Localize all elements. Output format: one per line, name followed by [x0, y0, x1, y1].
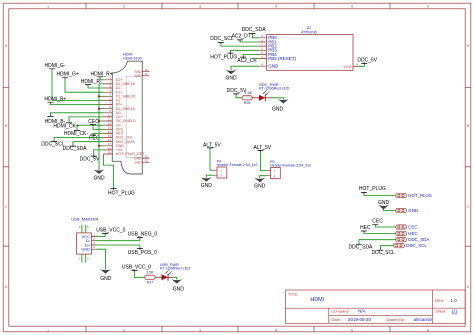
pad DDC_SCL [394, 244, 405, 248]
wire HEC to pin14 [93, 133, 104, 135]
svg-text:5: 5 [351, 4, 353, 8]
svg-text:3: 3 [199, 4, 201, 8]
svg-text:1: 1 [47, 328, 49, 332]
wire DDC_SDA to pin16 [73, 142, 104, 146]
svg-text:HEC: HEC [360, 225, 371, 231]
svg-text:HDMI-5190: HDMI-5190 [123, 57, 141, 61]
svg-text:DDC_SDA: DDC_SDA [63, 146, 88, 152]
svg-text:GND: GND [201, 183, 213, 189]
connector J1 top SHD pins [142, 72, 149, 76]
title block [286, 290, 466, 323]
net label HOT_PLUG (IC) [210, 50, 258, 60]
svg-text:DDC_SDA: DDC_SDA [242, 27, 267, 33]
net label DDC_SCL (left) [41, 138, 103, 148]
wire HOT_PLUG to pad [364, 193, 396, 195]
wire DDC_5V to R26 [236, 95, 242, 98]
wire HDMI_CK+ to pin10 [69, 117, 104, 123]
svg-text:DDC_SCL: DDC_SCL [210, 36, 234, 42]
net label AC2_DT [232, 34, 259, 43]
wire USB_VCC_0 to R27 [135, 271, 145, 277]
net label HDMI_B+ [44, 96, 103, 104]
connector J1 inner shield outline [126, 76, 142, 157]
svg-text:Header-Female-2.54_1x2: Header-Female-2.54_1x2 [217, 163, 258, 167]
svg-text:N/A: N/A [358, 309, 366, 314]
svg-text:GND: GND [100, 276, 112, 282]
svg-text:GND: GND [173, 286, 185, 292]
connector J1 HDMI-5190 [104, 53, 150, 174]
ground symbol IC [226, 70, 237, 74]
svg-text:2: 2 [123, 4, 125, 8]
svg-text:1: 1 [47, 4, 49, 8]
svg-text:1.5K: 1.5K [245, 91, 253, 95]
pad DDC_SDA [396, 238, 407, 242]
svg-text:HOT_PLUG: HOT_PLUG [210, 55, 237, 61]
header P4 [201, 142, 258, 188]
wire HDMI_CK- to pin12 [77, 125, 104, 130]
wire CEC to pin13 [93, 125, 104, 129]
svg-text:AC2_DT: AC2_DT [232, 34, 251, 40]
svg-text:6: 6 [427, 328, 429, 332]
net label HDMI_B- [45, 113, 104, 125]
svg-text:KT-1206Red LED: KT-1206Red LED [160, 265, 191, 270]
svg-text:DDC_SCL: DDC_SCL [372, 250, 396, 256]
svg-text:HDMI_CK+: HDMI_CK+ [53, 124, 79, 130]
pad HEC [396, 231, 407, 235]
svg-text:USB_MASTER: USB_MASTER [71, 217, 98, 222]
resistor R26 [242, 96, 252, 100]
wire P5 pin2 to GND [260, 176, 266, 179]
net label DDC_SDA (left) [63, 142, 104, 152]
USB power LED circuit [122, 262, 190, 293]
svg-text:DDC_SDA: DDC_SDA [408, 237, 429, 242]
ground symbol USB LED [172, 279, 183, 283]
svg-text:GND: GND [93, 176, 105, 182]
net label HDMI_CK+ [53, 117, 103, 130]
svg-text:Company:: Company: [331, 309, 349, 314]
svg-text:D: D [5, 285, 8, 289]
wire DDC_SCL to pin15 [54, 138, 103, 142]
net label DDC_SCL (IC) [210, 36, 258, 46]
net label AC2_CK [237, 54, 258, 64]
wire HDMI_B- to pin9 [51, 113, 104, 117]
wire DDC_SCL to pad [380, 246, 394, 251]
net label CEC [88, 119, 103, 130]
svg-text:USB_VCC_0: USB_VCC_0 [122, 264, 151, 270]
wire DDC_SCL to PB2 [221, 43, 259, 46]
net label HDMI_R+ [91, 71, 113, 80]
LED USB_PWR [162, 274, 169, 280]
net label DDC_5V (left) [80, 150, 104, 163]
svg-text:HOT_PLUG: HOT_PLUG [108, 191, 135, 197]
wire LED to GND [168, 276, 173, 278]
wire DDC_5V to pin18 [94, 150, 104, 156]
wire USB D- [97, 238, 140, 241]
svg-text:GND: GND [268, 64, 279, 69]
wire ALT_5V to P4 pin1 [210, 149, 212, 171]
connector J1 pin numbers [108, 76, 111, 154]
svg-text:R26: R26 [244, 101, 251, 105]
wire PB5 stub [252, 58, 259, 60]
svg-text:HEC: HEC [89, 135, 100, 141]
net label HDMI_G+ [57, 71, 104, 92]
wire HEC to pad [364, 232, 396, 234]
svg-text:DDC_5V: DDC_5V [80, 156, 100, 162]
pad GND [396, 209, 407, 213]
header P5 [254, 145, 312, 189]
svg-text:Header-Female-2.54_1x2: Header-Female-2.54_1x2 [270, 163, 311, 167]
svg-text:USB_NEG_0: USB_NEG_0 [128, 232, 158, 238]
USB_MASTER shield stubs bottom [82, 254, 86, 263]
svg-text:HOT_PLUG: HOT_PLUG [359, 186, 386, 192]
svg-text:REV:: REV: [435, 298, 444, 303]
svg-text:4: 4 [275, 328, 277, 332]
wire GND to pad [384, 209, 397, 211]
svg-text:SHD: SHD [134, 160, 142, 164]
wire HOT_PLUG from pin19 [104, 154, 136, 197]
svg-text:VCC: VCC [343, 64, 352, 69]
ground symbol below connector [94, 170, 105, 174]
svg-text:2019-05-20: 2019-05-20 [348, 317, 372, 322]
wire HDMI_G- to pin6 [52, 69, 104, 100]
svg-text:HOT_PLUG: HOT_PLUG [408, 193, 432, 198]
wire CEC to pad [375, 225, 396, 227]
wire DDC_SDA to PB0 [252, 34, 258, 38]
resistor R27 [145, 275, 155, 279]
IC U2 left pins [259, 38, 267, 66]
LED DDC_PWR [259, 95, 266, 101]
svg-text:GND: GND [408, 208, 418, 213]
ground symbol DDC LED [278, 99, 289, 103]
svg-text:3: 3 [199, 328, 201, 332]
USB_MASTER shield stubs top [82, 225, 86, 233]
svg-text:CEC: CEC [372, 219, 383, 225]
header P4 body [212, 170, 217, 175]
ground symbol P5 [255, 178, 266, 182]
header P5 body [266, 171, 271, 176]
svg-text:B: B [5, 124, 8, 128]
svg-text:USB_VCC_0: USB_VCC_0 [96, 228, 125, 234]
junction dots on shield trunk [98, 95, 100, 97]
wire AC2_DT to PB1 [240, 41, 259, 43]
svg-text:HEC: HEC [408, 231, 417, 236]
wire HDMI_G+ to pin4 [65, 78, 104, 92]
op IC U2 ATTINY45 [259, 26, 359, 70]
svg-text:GND: GND [225, 76, 237, 82]
wire shield trunk [93, 84, 105, 182]
test pads right column [359, 186, 433, 198]
wire USB VCC [97, 234, 106, 237]
svg-text:2: 2 [123, 328, 125, 332]
net label USB_POS_0 [97, 245, 158, 256]
svg-text:C: C [5, 205, 8, 209]
svg-text:1.0: 1.0 [451, 298, 458, 303]
svg-text:HDMI_G-: HDMI_G- [45, 63, 66, 69]
net label HDMI_CK- [64, 125, 104, 137]
svg-text:GND: GND [272, 106, 284, 112]
svg-text:ALT_5V: ALT_5V [203, 142, 221, 148]
svg-text:DDC_SCL: DDC_SCL [41, 141, 65, 147]
svg-text:TITLE:: TITLE: [288, 292, 298, 296]
net label HDMI_R- [81, 79, 104, 88]
ground symbol USB [100, 269, 111, 273]
wire LED to GND [265, 97, 271, 99]
connector J1 left pins 1-19 [104, 80, 113, 154]
svg-text:GND: GND [378, 200, 390, 206]
svg-text:GND: GND [81, 247, 90, 252]
svg-text:5: 5 [351, 328, 353, 332]
wire R26 to LED [252, 97, 258, 99]
svg-text:USB_POS_0: USB_POS_0 [128, 250, 157, 256]
net label USB_NEG_0 [97, 232, 158, 241]
pad CEC [396, 225, 407, 229]
IC U2 VCC pin 8 [353, 65, 359, 67]
connector J1 bottom GND/SHD pins [142, 158, 149, 162]
USB_MASTER right pin stubs [91, 237, 96, 250]
wire HDMI_B+ to pin7 [51, 103, 104, 105]
svg-text:Sheet:: Sheet: [435, 309, 447, 314]
svg-text:D: D [467, 285, 470, 289]
net label DDC_5V (IC VCC) [357, 57, 377, 66]
svg-text:PB5 (RESET): PB5 (RESET) [268, 56, 296, 61]
net label DDC_SDA (IC) [242, 27, 267, 38]
wire IC GND [225, 66, 258, 81]
connector J1 shell outline [112, 61, 142, 174]
wire P4 pin2 to GND [206, 175, 212, 178]
svg-text:1/1: 1/1 [451, 309, 458, 314]
svg-text:6: 6 [427, 4, 429, 8]
svg-text:HDMI_B+: HDMI_B+ [44, 96, 66, 102]
wire HDMI_R- to pin3 [88, 85, 104, 88]
net label HDMI_G- [45, 63, 104, 100]
wire R27 to LED [155, 276, 161, 278]
svg-text:A: A [5, 44, 8, 48]
svg-text:GND: GND [254, 183, 266, 189]
svg-text:ALT_5V: ALT_5V [254, 145, 272, 151]
pad HOT_PLUG [396, 193, 407, 197]
wire USB GND [97, 249, 112, 282]
net label HEC [89, 133, 104, 141]
svg-text:DDC_SCL: DDC_SCL [406, 243, 427, 248]
net label USB_VCC_0 [96, 228, 125, 237]
svg-text:B: B [467, 124, 470, 128]
svg-text:R27: R27 [147, 280, 154, 284]
connector J1 pin names [116, 78, 145, 156]
svg-text:4: 4 [275, 4, 277, 8]
svg-text:KT-1206Red LED: KT-1206Red LED [259, 85, 290, 90]
wire HDMI_R+ to pin1 [100, 77, 104, 79]
svg-text:ATTINY45: ATTINY45 [301, 30, 317, 34]
ground symbol P4 [201, 177, 212, 181]
svg-text:Drawn By:: Drawn By: [387, 317, 405, 322]
svg-text:alecamar: alecamar [414, 317, 433, 322]
wire ALT_5V to P5 pin1 [261, 151, 266, 171]
svg-text:HDMI_R+: HDMI_R+ [91, 71, 113, 77]
svg-text:1.5K: 1.5K [146, 271, 154, 275]
svg-text:CEC: CEC [408, 225, 417, 230]
svg-text:DDC_SDA: DDC_SDA [349, 245, 374, 251]
svg-text:SHD: SHD [134, 74, 142, 78]
svg-text:HDMI_G+: HDMI_G+ [57, 71, 79, 77]
DDC power LED circuit [227, 82, 290, 113]
svg-text:HDMI: HDMI [310, 297, 324, 303]
wire DDC_SDA to pad [359, 240, 396, 245]
svg-text:CEC: CEC [88, 119, 99, 125]
svg-text:DDC_5V: DDC_5V [357, 57, 377, 63]
svg-text:C: C [467, 205, 470, 209]
svg-text:Date:: Date: [331, 317, 341, 322]
svg-text:HDMI_CK-: HDMI_CK- [64, 131, 89, 137]
svg-text:A: A [467, 44, 470, 48]
connector USB_MASTER [71, 217, 98, 263]
